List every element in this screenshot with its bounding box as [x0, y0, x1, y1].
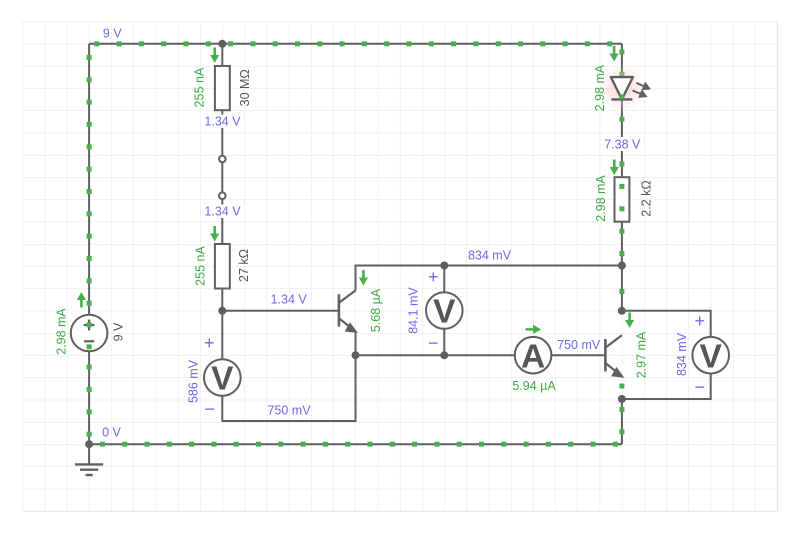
- svg-text:2.2 kΩ: 2.2 kΩ: [640, 180, 654, 216]
- LED light ray arrows: [633, 83, 650, 97]
- voltage label 7.38 V: [602, 137, 642, 152]
- svg-text:750 mV: 750 mV: [557, 338, 601, 352]
- svg-text:834 mV: 834 mV: [675, 332, 689, 376]
- wire base node to voltmeter V1 plus: [221, 311, 223, 359]
- voltmeter VM2: [426, 292, 463, 331]
- svg-text:27 kΩ: 27 kΩ: [237, 249, 251, 282]
- svg-text:V: V: [211, 361, 234, 398]
- wire bottom bus 0V net: [89, 442, 622, 447]
- value label 9 V (battery): [112, 322, 126, 341]
- value label 27 kOhm: [237, 249, 251, 282]
- svg-text:2.97 mA: 2.97 mA: [634, 331, 648, 378]
- junction Q1 emitter node: [352, 351, 360, 359]
- current label 255 nA (R1): [193, 67, 207, 107]
- junction Q2 collector node: [618, 307, 626, 315]
- junction ground node: [85, 440, 93, 448]
- wire middle branch top (node 9V to resistor 30M): [221, 44, 223, 66]
- svg-text:84.1 mV: 84.1 mV: [407, 287, 421, 334]
- wire top bus 9V net: [89, 41, 622, 46]
- resistor R3 2.2 kOhm: [615, 177, 630, 222]
- wire Q1 collector to 834mV rail: [356, 266, 622, 291]
- svg-text:+: +: [204, 333, 215, 353]
- svg-text:586 mV: 586 mV: [187, 359, 201, 403]
- svg-text:2.98 mA: 2.98 mA: [55, 308, 69, 355]
- reading label 5.94 uA: [512, 379, 556, 393]
- current label 2.98 mA (R3): [594, 175, 608, 222]
- reading label 586 mV: [187, 359, 201, 403]
- svg-text:+: +: [428, 267, 439, 287]
- voltage label 750 mV (Q2 base): [557, 338, 601, 352]
- plus sign VM3: [694, 311, 705, 331]
- terminal post upper (wire junction): [219, 156, 226, 163]
- wire resistor 30M to resistor 27k (through terminals): [221, 110, 223, 244]
- svg-text:−: −: [694, 377, 705, 397]
- ground symbol: [75, 444, 103, 475]
- junction rail / VM2 plus: [440, 262, 448, 270]
- minus sign VM3: [694, 377, 705, 397]
- wire left branch upper (battery positive lead): [87, 44, 92, 315]
- net label 9 V: [103, 27, 122, 41]
- current label 255 nA (R2): [194, 246, 208, 286]
- wire voltmeter V1 minus to 750mV loop: [222, 355, 355, 421]
- voltage label 1.34 V (below R1): [203, 115, 242, 129]
- svg-text:5.68 µA: 5.68 µA: [369, 288, 383, 332]
- current label 2.98 mA (battery): [55, 308, 69, 355]
- minus sign VM1: [204, 399, 215, 419]
- svg-text:−: −: [428, 333, 439, 353]
- current arrow into LED: [610, 46, 619, 62]
- svg-text:V: V: [700, 338, 723, 375]
- svg-text:0 V: 0 V: [102, 426, 121, 440]
- wire voltmeter V3 minus to Q2 emitter node: [622, 374, 711, 400]
- wire ammeter to Q2 base: [551, 354, 605, 356]
- junction Q1 base node: [218, 307, 226, 315]
- transistor Q2 NPN: [605, 335, 624, 388]
- LED D1: [611, 77, 633, 99]
- current label 5.68 uA (Q1): [369, 288, 383, 332]
- voltmeter VM1: [204, 359, 241, 398]
- voltage label 1.34 V (Q1 base): [271, 292, 308, 306]
- wire LED cathode to resistor 2.2k: [619, 99, 624, 177]
- wire rail to voltmeter V2 plus: [443, 266, 445, 293]
- wire collector node to voltmeter V3 plus: [622, 311, 711, 337]
- current arrow Q1 collector: [359, 270, 368, 286]
- junction emitter rail / VM2 minus: [440, 351, 448, 359]
- wire right branch top (to LED anode): [619, 44, 624, 77]
- voltage label 750 mV (loop): [267, 404, 311, 418]
- value label 2.2 kOhm: [640, 180, 654, 216]
- current arrow ammeter: [526, 325, 542, 334]
- LED D1 glow: [597, 64, 647, 114]
- wire resistor 27k to base node: [221, 289, 223, 311]
- current arrow through battery: [77, 292, 86, 308]
- plus sign VM2: [428, 267, 439, 287]
- wire Q1 emitter to ammeter: [356, 331, 515, 355]
- svg-text:5.94 µA: 5.94 µA: [512, 379, 556, 393]
- svg-text:255 nA: 255 nA: [194, 246, 208, 286]
- voltage label 1.34 V (above R2): [203, 205, 242, 219]
- svg-text:1.34 V: 1.34 V: [204, 115, 241, 129]
- svg-text:834 mV: 834 mV: [468, 249, 512, 263]
- value label 30 MOhm: [238, 69, 252, 106]
- svg-text:9 V: 9 V: [103, 27, 122, 41]
- svg-text:9 V: 9 V: [112, 322, 126, 341]
- minus sign VM2: [428, 333, 439, 353]
- current arrow Q2 collector: [625, 313, 634, 329]
- terminal post lower (wire junction): [219, 192, 226, 199]
- wire resistor 2.2k to collector node: [619, 222, 624, 266]
- wire Q1 base: [222, 310, 339, 312]
- voltage source B1 9V: [71, 315, 108, 352]
- wire Q2 emitter to bottom bus: [619, 399, 624, 444]
- svg-text:V: V: [433, 294, 456, 331]
- svg-text:750 mV: 750 mV: [267, 404, 311, 418]
- current arrow into R2: [210, 226, 219, 242]
- svg-text:1.34 V: 1.34 V: [271, 292, 308, 306]
- current label 2.97 mA (Q2): [634, 331, 648, 378]
- svg-text:255 nA: 255 nA: [193, 67, 207, 107]
- junction node 9V / R1: [218, 40, 226, 48]
- junction Q2 emitter node: [618, 395, 626, 403]
- svg-text:30 MΩ: 30 MΩ: [238, 69, 252, 106]
- current arrow into R1: [210, 48, 219, 64]
- ammeter AM1: [515, 337, 552, 375]
- svg-text:−: −: [204, 399, 215, 419]
- svg-text:A: A: [521, 338, 545, 375]
- transistor Q1 NPN: [339, 291, 357, 333]
- current arrow into R3: [610, 160, 619, 176]
- svg-text:1.34 V: 1.34 V: [204, 205, 241, 219]
- resistor R2 27 kOhm: [215, 244, 230, 289]
- svg-text:2.98 mA: 2.98 mA: [593, 64, 607, 111]
- svg-text:+: +: [694, 311, 705, 331]
- wire left branch lower (battery negative lead): [87, 351, 92, 444]
- plus sign VM1: [204, 333, 215, 353]
- svg-text:2.98 mA: 2.98 mA: [594, 175, 608, 222]
- current label 2.98 mA (LED): [593, 64, 607, 111]
- reading label 834 mV (VM3): [675, 332, 689, 376]
- resistor R1 30 MOhm: [215, 66, 230, 110]
- junction collector rail / R3: [618, 262, 626, 270]
- wire voltmeter V2 minus to emitter rail: [443, 329, 445, 356]
- reading label 84.1 mV: [407, 287, 421, 334]
- net label 0 V: [102, 426, 121, 440]
- wire collector node to Q2 collector: [619, 266, 624, 311]
- voltmeter VM3: [692, 337, 729, 375]
- voltage label 834 mV (rail): [468, 249, 512, 263]
- svg-text:7.38 V: 7.38 V: [604, 138, 641, 152]
